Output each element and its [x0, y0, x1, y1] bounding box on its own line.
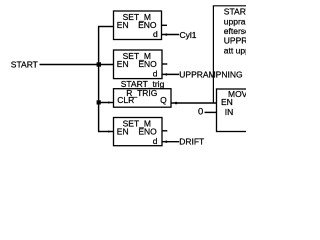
wire branch to U1 EN — [98, 26, 114, 28]
svg-text:d: d — [153, 29, 158, 39]
wire U2 ENO stub — [162, 63, 167, 65]
svg-text:EN: EN — [117, 59, 129, 69]
svg-text:UPPRAMPNING: UPPRAMPNING — [224, 35, 246, 45]
svg-text:DRIFT: DRIFT — [179, 137, 204, 147]
wire START rail — [40, 64, 114, 66]
svg-text:att uppnå rätt: att uppnå rätt — [224, 45, 246, 55]
svg-text:eftersom den: eftersom den — [224, 26, 246, 36]
wire branch to U4 EN — [98, 131, 114, 133]
junction at R_TRIG branch — [97, 100, 101, 104]
svg-text:CLR: CLR — [117, 95, 134, 105]
function block U3 R_TRIG — [114, 88, 172, 107]
comment box connector line — [212, 6, 214, 103]
comment box — [213, 5, 246, 7]
wire vertical bus — [98, 27, 100, 132]
wire U1 d output — [162, 34, 180, 36]
svg-text:EN: EN — [117, 127, 129, 137]
svg-text:Q: Q — [160, 95, 167, 105]
svg-text:0: 0 — [198, 107, 203, 118]
svg-text:EN: EN — [221, 97, 233, 107]
svg-text:Cyl1: Cyl1 — [180, 30, 197, 40]
function block U2 SET_M — [114, 50, 163, 79]
junction at START rail — [97, 62, 101, 66]
svg-text:START: START — [11, 59, 38, 69]
function block U5 MOVE — [217, 89, 265, 132]
svg-text:EN: EN — [117, 20, 129, 30]
svg-text:UPPRAMPNING: UPPRAMPNING — [179, 69, 242, 79]
wire U4 d output — [162, 141, 179, 143]
svg-text:START startar: START startar — [224, 6, 246, 16]
wire 0 to U5 IN — [205, 111, 217, 113]
wire U3 Q output to U5 EN — [171, 102, 217, 104]
svg-text:IN: IN — [225, 107, 234, 117]
function block U1 SET_M — [114, 11, 162, 40]
wire U4 ENO stub — [162, 130, 167, 132]
svg-text:d: d — [153, 136, 158, 146]
wire U2 d output — [162, 73, 179, 75]
wire U1 ENO stub — [162, 24, 168, 26]
svg-text:d: d — [153, 68, 158, 78]
function block U4 SET_M — [114, 118, 163, 146]
wire branch to U3 CLK — [99, 102, 114, 104]
